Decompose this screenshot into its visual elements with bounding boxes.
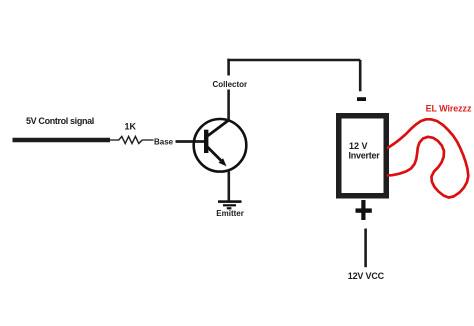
- transistor Q1 base bar: [204, 130, 208, 153]
- wire W1 input (thick): [13, 138, 111, 143]
- wire W5 collector vertical upper: [227, 59, 230, 76]
- wire W2: [110, 139, 119, 141]
- svg-text:Inverter: Inverter: [349, 151, 381, 161]
- svg-text:Collector: Collector: [213, 80, 248, 89]
- wire W6 collector vertical lower: [227, 90, 230, 121]
- svg-text:EL Wirezzz: EL Wirezzz: [426, 103, 472, 113]
- svg-text:5V Control signal: 5V Control signal: [26, 116, 94, 126]
- wire W7 top horizontal: [227, 59, 360, 62]
- resistor R1: [119, 136, 142, 143]
- transistor Q1 body circle: [194, 119, 247, 172]
- wire W9 VCC vertical: [364, 229, 367, 268]
- transistor Q1 emitter stroke with arrow: [207, 147, 227, 167]
- svg-text:Base: Base: [154, 137, 174, 146]
- minus terminal symbol: [357, 97, 366, 101]
- wire W3: [142, 139, 153, 141]
- transistor Q1 collector stroke: [208, 120, 230, 136]
- svg-text:1K: 1K: [125, 122, 137, 132]
- EL wire (red freehand loop): [388, 119, 468, 197]
- ground: [218, 200, 242, 209]
- svg-text:Emitter: Emitter: [216, 209, 244, 218]
- plus terminal symbol: [356, 200, 372, 220]
- wire W10 emitter vertical: [228, 172, 231, 202]
- wire W4 base lead: [176, 140, 206, 143]
- inverter U1 box: [336, 113, 389, 199]
- wire W8 right vertical to inverter: [359, 60, 362, 91]
- svg-text:12V VCC: 12V VCC: [348, 271, 385, 281]
